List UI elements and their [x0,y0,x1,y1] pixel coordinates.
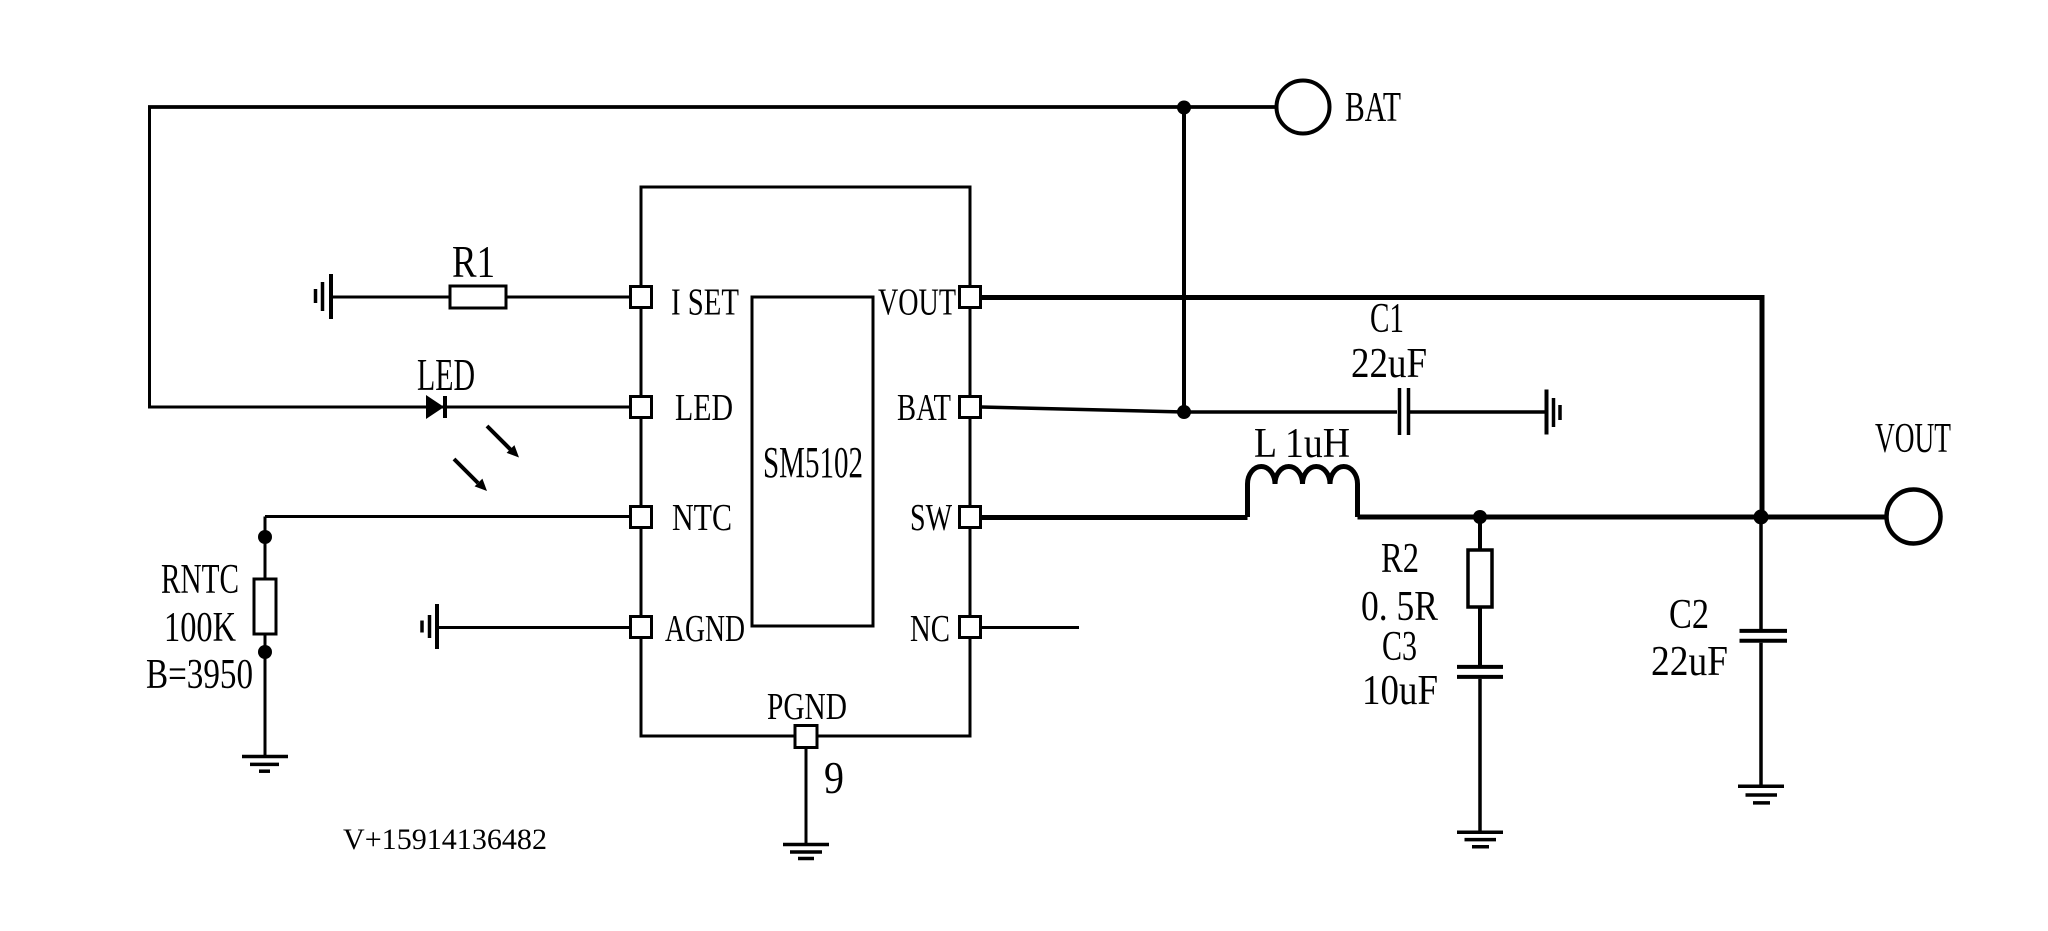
node: RNTC bottom junction [258,645,272,659]
wire: R1 to ISET pin [506,296,630,299]
svg-text:RNTC: RNTC [161,557,239,603]
wire: VOUT pin to output node (thick) [981,298,1762,518]
svg-text:100K: 100K [164,605,236,651]
node: RNTC top junction [258,530,272,544]
ground for C3 [1457,832,1503,847]
ground for PGND [783,845,829,859]
ground for C1 (sideways, facing right) [1547,390,1561,435]
svg-text:L 1uH: L 1uH [1254,421,1350,467]
wire: junction to R2 [1478,517,1482,550]
node: C2 branch junction [1754,510,1769,525]
wire: LED anode rail [148,406,630,409]
terminal BAT [1277,81,1330,134]
pin PGND [795,726,817,748]
pin ISET [631,287,652,308]
wire: junction to C2 [1759,517,1763,629]
wire: PGND to ground [805,747,808,843]
pin AGND [631,617,652,638]
svg-text:R2: R2 [1381,536,1419,582]
wire: left vertical from top rail to LED anode [148,107,151,407]
LED emission arrow 1 [487,426,519,458]
wire: ground to R1 [333,296,450,299]
svg-text:C1: C1 [1370,296,1404,342]
ground for R1 (sideways, facing left) [316,274,332,319]
node: junction on top rail [1177,101,1191,115]
diode LED [426,395,447,419]
wire: RNTC to ground [264,634,267,755]
svg-text:C3: C3 [1382,624,1417,670]
svg-text:AGND: AGND [665,608,745,650]
resistor R2 [1468,550,1492,607]
pin NTC [631,507,652,528]
capacitor C2 [1740,631,1788,641]
wire: R2 to C3 [1478,607,1482,665]
node: R2 branch junction [1473,510,1487,524]
pin VOUT [960,287,981,308]
svg-text:C2: C2 [1669,592,1709,638]
pin LED [631,397,652,418]
wire: C1 to ground [1410,410,1545,414]
svg-text:I SET: I SET [671,282,739,324]
wire: C2 to ground [1759,643,1763,785]
node: BAT net junction [1177,405,1191,419]
resistor R1 [450,286,506,308]
resistor RNTC [254,579,276,634]
wire: NC stub [981,626,1079,629]
ground for AGND (sideways, facing left) [422,604,437,649]
capacitor C3 [1457,667,1503,677]
svg-text:B=3950: B=3950 [146,652,253,698]
IC U1 inner box [752,297,873,626]
wire: ground to AGND pin [439,626,630,629]
wire: top BAT rail [148,105,1276,109]
wire: BAT pin to C1 [981,407,1397,412]
svg-text:9: 9 [824,752,844,803]
svg-text:PGND: PGND [767,686,847,728]
LED emission arrow 2 [454,459,487,491]
svg-text:22uF: 22uF [1351,341,1427,387]
IC U1 outer box [641,187,970,736]
ground for RNTC [242,757,288,772]
svg-text:R1: R1 [452,237,495,287]
pin NC [960,617,981,638]
svg-text:LED: LED [675,387,733,429]
svg-text:BAT: BAT [897,387,951,429]
svg-text:NTC: NTC [672,497,732,539]
wire: NTC pin to RNTC branch [265,515,630,518]
svg-text:22uF: 22uF [1651,639,1728,685]
pin BAT [960,397,981,418]
wire: vertical RNTC branch [264,517,267,580]
svg-text:VOUT: VOUT [1875,416,1951,462]
ground for C2 [1738,786,1784,803]
wire: SW pin to inductor (thick) [981,515,1248,520]
svg-text:VOUT: VOUT [878,282,956,324]
svg-text:SM5102: SM5102 [763,438,863,487]
inductor L 1uH [1248,467,1358,518]
svg-text:LED: LED [417,350,475,400]
wire: C3 to ground [1478,679,1482,831]
svg-text:10uF: 10uF [1362,668,1438,714]
svg-text:V+15914136482: V+15914136482 [343,823,547,856]
svg-text:SW: SW [910,497,952,539]
wire: vertical from top rail junction to BAT pin net [1182,107,1186,412]
capacitor C1 [1400,388,1409,435]
svg-text:NC: NC [910,608,950,650]
wire: inductor to VOUT terminal (thick) [1358,515,1888,520]
pin SW [960,507,981,528]
terminal VOUT [1887,490,1941,544]
svg-text:BAT: BAT [1345,85,1401,131]
